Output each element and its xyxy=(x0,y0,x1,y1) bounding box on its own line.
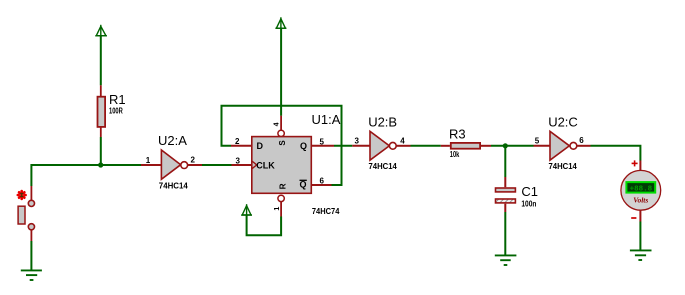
svg-text:U2:C: U2:C xyxy=(548,114,578,129)
svg-text:CLK: CLK xyxy=(256,161,275,171)
wire corner down to switch xyxy=(30,164,32,186)
svg-text:D: D xyxy=(257,141,264,151)
wire R3 to U2:C xyxy=(491,145,534,147)
capacitor C1 xyxy=(496,177,516,212)
switch actuator star center xyxy=(19,193,24,198)
svg-text:S: S xyxy=(278,140,287,146)
inverter U2:A xyxy=(161,150,202,179)
wire R pin to VCC arrow xyxy=(247,215,282,235)
switch actuator star diamonds xyxy=(19,194,25,197)
resistor R1 xyxy=(98,85,106,137)
svg-text:74HC14: 74HC14 xyxy=(549,162,578,171)
inverter U2:B xyxy=(370,131,411,160)
svg-text:100n: 100n xyxy=(521,200,536,209)
wire VCC to R1 xyxy=(100,36,102,86)
svg-text:100R: 100R xyxy=(109,107,123,116)
wire node B down to C1 xyxy=(504,146,506,177)
svg-text:74HC74: 74HC74 xyxy=(312,207,340,216)
wire node A to U2:A pin stub xyxy=(141,164,162,166)
svg-text:5: 5 xyxy=(535,136,540,145)
svg-text:R: R xyxy=(278,183,287,189)
node B junction dot xyxy=(503,143,508,148)
wire R1 to node A xyxy=(100,137,102,166)
svg-text:Volts: Volts xyxy=(633,196,648,205)
svg-text:4: 4 xyxy=(400,137,405,146)
switch actuator star xyxy=(18,191,26,199)
clock wedge xyxy=(252,161,257,169)
svg-text:1: 1 xyxy=(146,156,151,165)
Q-bar pin stub xyxy=(312,184,332,186)
U2:C input stub xyxy=(534,145,551,147)
svg-text:U1:A: U1:A xyxy=(312,112,341,127)
wire switch to ground xyxy=(30,241,32,270)
switch plunger rectangle xyxy=(18,206,25,224)
svg-text:10k: 10k xyxy=(450,150,460,159)
U2:B input stub xyxy=(352,145,370,147)
svg-text:6: 6 xyxy=(579,136,584,145)
D feedback wire from Q-bar xyxy=(222,106,342,185)
voltmeter minus pin xyxy=(639,210,641,221)
inverter U2:C xyxy=(550,131,591,160)
svg-text:+88.8: +88.8 xyxy=(630,185,653,193)
voltmeter display xyxy=(626,182,655,193)
S pin stub xyxy=(280,116,282,131)
resistor R3 xyxy=(441,143,491,149)
switch contact bottom xyxy=(28,224,34,230)
flip-flop U1:A body xyxy=(252,137,311,194)
ground under C1 xyxy=(495,255,517,265)
svg-text:74HC14: 74HC14 xyxy=(369,162,398,171)
wire Q to U2:B xyxy=(334,145,352,147)
CLK pin stub xyxy=(232,164,252,166)
power symbol VCC below U1:A xyxy=(241,204,252,215)
wire U2:A to CLK xyxy=(202,164,232,166)
wire voltmeter to ground xyxy=(639,222,641,251)
Q pin stub xyxy=(312,145,335,147)
power symbol VCC above U1:A xyxy=(275,17,286,28)
switch bottom pin xyxy=(30,230,32,241)
wire node A left to switch corner xyxy=(31,164,141,166)
svg-text:2: 2 xyxy=(235,137,240,146)
switch push-button top pin xyxy=(30,186,32,200)
wire U2:B to R3 xyxy=(411,145,441,147)
wire VCC to S pin xyxy=(280,28,282,116)
svg-text:4: 4 xyxy=(274,122,281,126)
svg-text:Q: Q xyxy=(300,141,307,151)
plus marker xyxy=(632,160,638,166)
wire U2:C to voltmeter xyxy=(591,146,641,161)
svg-text:3: 3 xyxy=(355,136,360,145)
svg-text:Q: Q xyxy=(300,180,307,190)
voltmeter body xyxy=(621,170,661,210)
svg-text:2: 2 xyxy=(191,156,196,165)
ground under switch xyxy=(21,270,42,280)
voltmeter plus pin xyxy=(639,161,641,172)
svg-text:74HC14: 74HC14 xyxy=(159,181,189,190)
R pin bubble xyxy=(278,195,284,201)
Q-bar overline xyxy=(300,179,307,181)
svg-text:C1: C1 xyxy=(521,184,538,199)
svg-text:U2:B: U2:B xyxy=(368,114,397,129)
D pin stub xyxy=(231,145,251,147)
minus marker xyxy=(631,217,636,219)
svg-text:U2:A: U2:A xyxy=(158,133,187,148)
switch contact top xyxy=(28,200,34,206)
node A junction dot xyxy=(98,162,103,167)
power symbol VCC above R1 xyxy=(95,25,107,36)
svg-text:1: 1 xyxy=(274,207,281,211)
svg-text:R3: R3 xyxy=(449,126,466,141)
S pin bubble xyxy=(278,130,284,136)
wire C1 to ground xyxy=(504,212,506,255)
ground under voltmeter xyxy=(630,250,652,260)
svg-text:3: 3 xyxy=(236,156,241,165)
R pin stub xyxy=(280,202,282,217)
svg-text:R1: R1 xyxy=(109,92,126,107)
